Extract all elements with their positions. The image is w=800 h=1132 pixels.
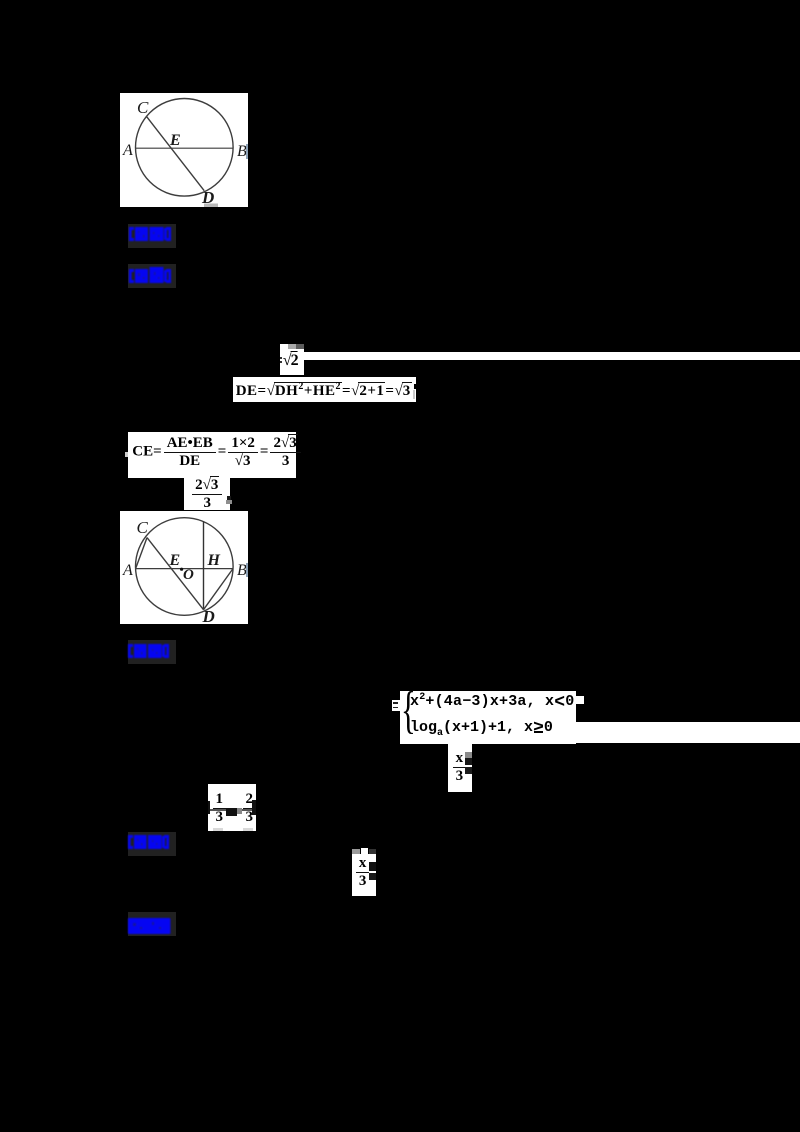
white band right of sqrt2 (304, 352, 800, 360)
svg-text:C: C (137, 518, 149, 537)
gray smudge above diagram 2 (184, 511, 192, 516)
node O center dot (180, 568, 183, 571)
wire diameter AB (136, 147, 234, 149)
svg-text:B: B (237, 143, 247, 160)
blue label 3 (128, 640, 176, 664)
wire chord CD (147, 117, 205, 191)
blue label 4 (128, 832, 176, 856)
blue label 2 (128, 264, 177, 288)
svg-text:E: E (169, 552, 181, 569)
wire chord CD (147, 538, 204, 610)
circle O (136, 99, 234, 197)
formula sqrt(2) fragment (280, 344, 304, 375)
blue label 1 (128, 224, 177, 248)
formula x/3 first (448, 744, 473, 792)
formula CE = AE.EB/DE = 1x2/sqrt3 = 2sqrt3/3 (128, 432, 296, 478)
svg-text:A: A (122, 142, 133, 159)
svg-text:A: A (122, 562, 133, 579)
svg-text:O: O (183, 567, 194, 583)
diagram 2 : circle with diameter AB, chords CD, AC, DB, height DH, center O (120, 511, 248, 624)
svg-text:B: B (237, 562, 247, 579)
svg-text:E: E (169, 132, 181, 149)
formula x/3 second (352, 854, 376, 896)
blue label 5 (128, 912, 176, 936)
gray tick left of CE formula (125, 452, 129, 457)
formula DE=sqrt(DH^2+HE^2)=sqrt(2+1)=sqrt(3) (233, 377, 416, 403)
formula piecewise f(x) (400, 691, 576, 744)
svg-text:H: H (207, 552, 221, 569)
wire vertical DH (203, 521, 205, 609)
diagram 1 : circle with diameter AB, chord CD, intersection E (120, 93, 248, 207)
circle O (136, 518, 234, 616)
formula 1/3 . 2/3 (208, 784, 257, 832)
wire chord DB (204, 569, 234, 610)
wire diameter AB (136, 568, 234, 570)
formula 2sqrt3/3 (184, 478, 230, 510)
svg-text:D: D (202, 607, 215, 624)
svg-text:C: C (137, 98, 149, 117)
wire chord AC (136, 538, 147, 569)
